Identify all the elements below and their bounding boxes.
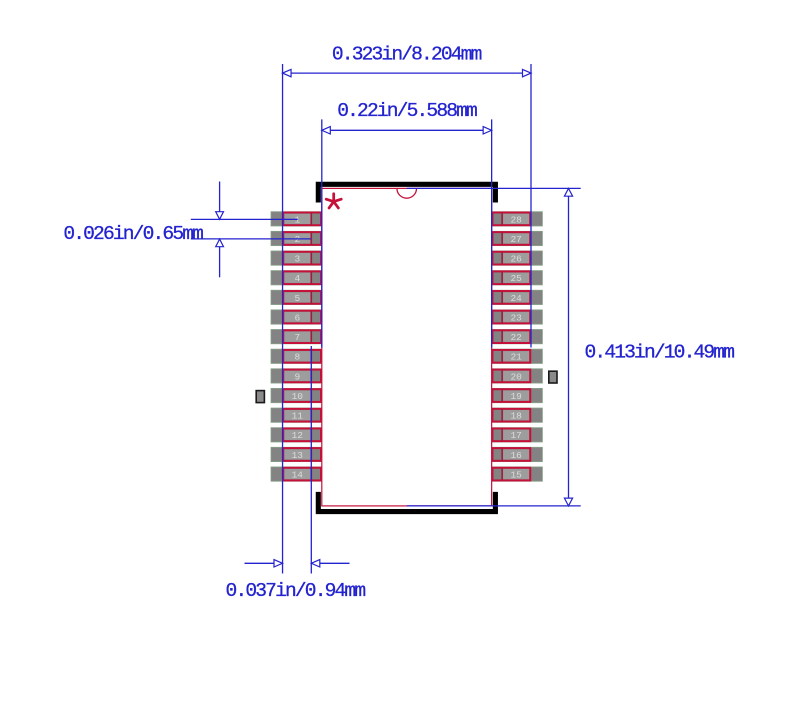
pad 9 bbox=[271, 369, 322, 383]
pad 14 bbox=[271, 467, 322, 481]
extension line body left bbox=[321, 119, 323, 347]
svg-text:25: 25 bbox=[510, 273, 522, 284]
svg-text:18: 18 bbox=[510, 411, 522, 422]
svg-text:0.22in/5.588mm: 0.22in/5.588mm bbox=[337, 100, 477, 122]
silkscreen top bar with corner brackets bbox=[318, 184, 495, 202]
svg-text:8: 8 bbox=[294, 352, 300, 363]
arrowhead left bbox=[283, 69, 292, 76]
dimension line 0.22in bbox=[322, 129, 492, 131]
svg-text:16: 16 bbox=[510, 450, 522, 461]
dim tail right bbox=[320, 562, 350, 564]
arrowhead right-pointing bbox=[274, 560, 283, 567]
dim tail left bbox=[245, 562, 275, 564]
pad 4 bbox=[271, 271, 322, 285]
pad 25 bbox=[492, 271, 543, 285]
extension line body top (horizontal) bbox=[407, 187, 581, 189]
extension line right (x=531) bbox=[530, 64, 532, 348]
pad 17 bbox=[492, 428, 543, 442]
pad 19 bbox=[492, 388, 543, 402]
pad 23 bbox=[492, 310, 543, 324]
arrowhead left-pointing bbox=[311, 560, 320, 567]
svg-text:0.037in/0.94mm: 0.037in/0.94mm bbox=[226, 580, 366, 602]
svg-text:12: 12 bbox=[292, 430, 304, 441]
svg-text:3: 3 bbox=[294, 254, 300, 265]
svg-text:7: 7 bbox=[294, 332, 300, 343]
pad 13 bbox=[271, 447, 322, 461]
package body outline bbox=[322, 188, 492, 506]
svg-text:4: 4 bbox=[294, 273, 300, 284]
svg-text:20: 20 bbox=[510, 371, 522, 382]
svg-text:17: 17 bbox=[510, 430, 521, 441]
pad 11 bbox=[271, 408, 322, 422]
svg-text:28: 28 bbox=[510, 214, 522, 225]
arrowhead down bbox=[216, 212, 224, 220]
svg-text:6: 6 bbox=[294, 312, 300, 323]
pad 1 bbox=[271, 212, 322, 226]
pad 5 bbox=[271, 290, 322, 304]
pad 20 bbox=[492, 369, 543, 383]
pad 8 bbox=[271, 349, 322, 363]
pitch line pin2 bbox=[191, 238, 311, 240]
pad 21 bbox=[492, 349, 543, 363]
svg-text:26: 26 bbox=[510, 254, 522, 265]
pad 7 bbox=[271, 329, 322, 343]
svg-text:0.323in/8.204mm: 0.323in/8.204mm bbox=[332, 44, 482, 66]
pad 15 bbox=[492, 467, 543, 481]
svg-text:27: 27 bbox=[510, 234, 521, 245]
pitch line pin1 bbox=[191, 218, 298, 220]
svg-text:21: 21 bbox=[510, 352, 522, 363]
svg-text:0.026in/0.65mm: 0.026in/0.65mm bbox=[63, 223, 203, 245]
svg-text:10: 10 bbox=[292, 391, 304, 402]
svg-text:22: 22 bbox=[510, 332, 522, 343]
arrowhead right bbox=[523, 69, 532, 76]
dimension line 0.413in (vertical) bbox=[568, 188, 570, 506]
svg-text:15: 15 bbox=[510, 469, 522, 480]
pad 26 bbox=[492, 251, 543, 265]
svg-text:14: 14 bbox=[292, 469, 304, 480]
svg-text:13: 13 bbox=[292, 450, 304, 461]
pitch arrow stem lower bbox=[219, 239, 221, 277]
extension line body right bbox=[491, 119, 493, 347]
pitch arrow stem upper bbox=[219, 182, 221, 220]
arrowhead up bbox=[564, 188, 572, 196]
pad 12 bbox=[271, 428, 322, 442]
pad 10 bbox=[271, 388, 322, 402]
silkscreen bottom bar with corner brackets bbox=[318, 492, 495, 512]
pad 22 bbox=[492, 329, 543, 343]
extension line x=311.3 bbox=[310, 346, 312, 574]
pad 27 bbox=[492, 231, 543, 245]
svg-text:19: 19 bbox=[510, 391, 522, 402]
extension line body bottom (horizontal) bbox=[407, 505, 581, 507]
svg-text:23: 23 bbox=[510, 312, 522, 323]
left marker square bbox=[256, 391, 264, 403]
extension line left (x=282.5) bbox=[282, 64, 284, 574]
svg-text:9: 9 bbox=[294, 371, 300, 382]
pad 3 bbox=[271, 251, 322, 265]
pad 24 bbox=[492, 290, 543, 304]
svg-text:0.413in/10.49mm: 0.413in/10.49mm bbox=[585, 341, 735, 363]
pad 2 bbox=[271, 231, 322, 245]
arrowhead down bbox=[564, 498, 572, 506]
arrowhead left bbox=[322, 127, 331, 134]
pin-1 index notch (semicircle) bbox=[397, 188, 417, 198]
pad 28 bbox=[492, 212, 543, 226]
pad 18 bbox=[492, 408, 543, 422]
arrowhead up bbox=[216, 239, 224, 247]
pad 16 bbox=[492, 447, 543, 461]
svg-text:24: 24 bbox=[510, 293, 522, 304]
svg-text:5: 5 bbox=[294, 293, 300, 304]
arrowhead right bbox=[483, 127, 492, 134]
pad 6 bbox=[271, 310, 322, 324]
right marker square bbox=[549, 371, 557, 383]
svg-text:11: 11 bbox=[292, 411, 304, 422]
pin-1 marker asterisk bbox=[326, 194, 341, 208]
dimension line 0.323in bbox=[283, 72, 531, 74]
